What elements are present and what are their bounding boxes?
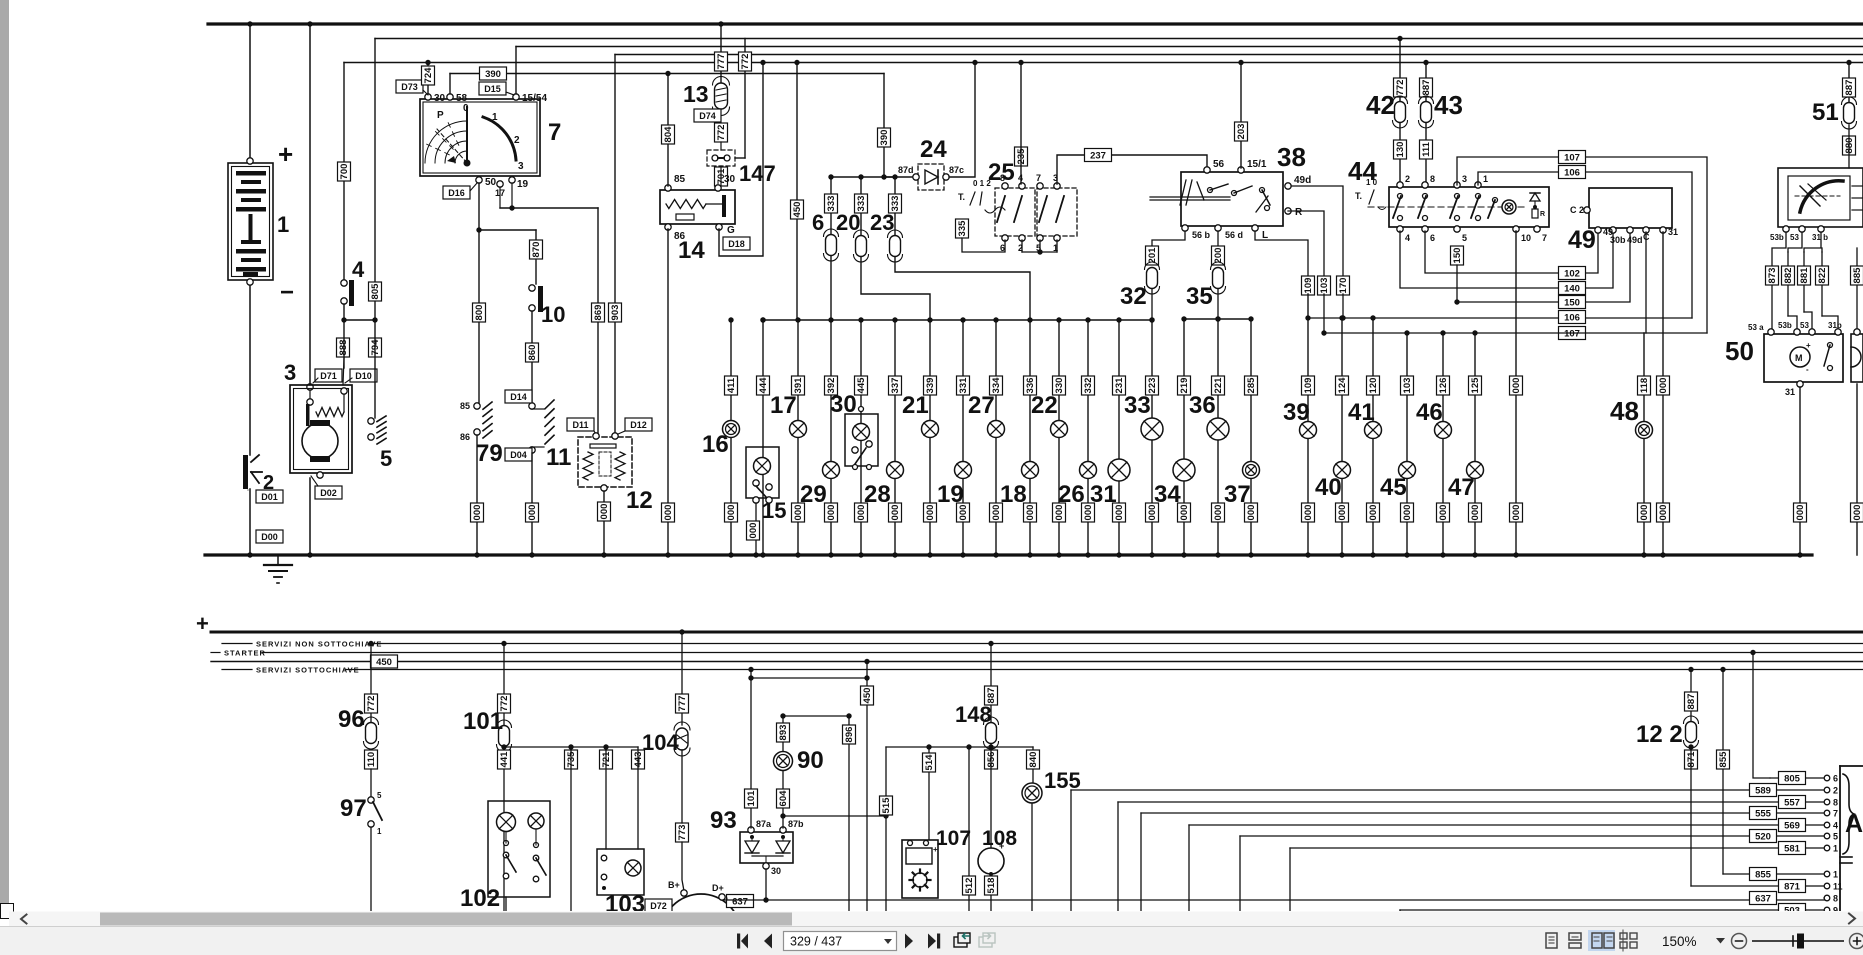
label 860	[526, 343, 539, 362]
wire 237 line	[1057, 155, 1207, 184]
svg-text:860: 860	[527, 345, 538, 361]
label D74	[694, 109, 721, 122]
svg-text:+: +	[196, 611, 209, 636]
label 79	[476, 440, 503, 467]
lamp 155	[1022, 783, 1042, 803]
wire 104 column	[679, 629, 684, 725]
lamp 29	[823, 462, 840, 479]
label 800	[473, 303, 486, 322]
svg-text:18: 18	[1000, 481, 1027, 508]
starter motor 3	[290, 385, 352, 473]
wire 870 branch	[476, 227, 536, 284]
svg-text:G: G	[727, 225, 735, 236]
toolbar zoom-in button	[1850, 934, 1863, 949]
svg-text:50: 50	[1725, 336, 1754, 366]
key switch 2	[243, 455, 262, 490]
lamp 40	[1334, 462, 1351, 479]
label D00	[256, 530, 283, 543]
label 777 col104	[676, 694, 689, 713]
svg-text:450: 450	[862, 688, 873, 704]
svg-text:101: 101	[463, 708, 503, 735]
label 106 bottom box	[1559, 311, 1586, 324]
switch 38 terminal 15/1	[1238, 159, 1267, 173]
relay 14	[660, 190, 735, 224]
regulator 93 terminals	[748, 819, 804, 876]
svg-text:58: 58	[456, 93, 468, 104]
svg-text:31: 31	[1668, 227, 1678, 237]
svg-text:39: 39	[1283, 399, 1310, 426]
motor 50b right	[1851, 329, 1863, 382]
label 000 col 36	[1212, 503, 1225, 522]
svg-text:29: 29	[800, 481, 827, 508]
svg-text:7: 7	[548, 119, 561, 146]
switch 25 lever marks	[958, 179, 991, 205]
label 000 pin10	[1510, 376, 1523, 395]
label 870	[530, 240, 543, 259]
label 285	[1245, 376, 1258, 395]
lamp-switch unit 15	[746, 447, 779, 503]
label 122	[1636, 721, 1683, 748]
svg-text:15: 15	[762, 498, 786, 523]
label 26	[1058, 481, 1085, 508]
switch 25 top terminals	[1000, 173, 1060, 189]
motor 50 pin 31	[1785, 381, 1803, 397]
label 441	[498, 750, 511, 769]
wire 203	[1238, 60, 1243, 168]
label 581 row box	[1779, 842, 1806, 855]
svg-text:000: 000	[1852, 505, 1863, 521]
label 30	[830, 391, 857, 418]
wire 869	[597, 208, 599, 434]
svg-text:87c: 87c	[949, 165, 964, 175]
label 124	[1336, 376, 1349, 395]
svg-text:000: 000	[1213, 505, 1224, 521]
svg-text:7: 7	[1542, 233, 1547, 243]
label 000 col50	[1794, 503, 1807, 522]
label 721	[600, 750, 613, 769]
label 000 pin31b	[1657, 503, 1670, 522]
svg-text:D+: D+	[712, 883, 724, 893]
wire 871 down	[1690, 747, 1692, 886]
wire 2 to ground bus	[247, 489, 252, 558]
label 869	[592, 303, 605, 322]
wire motor 50 to ground	[1797, 387, 1802, 558]
svg-text:148: 148	[955, 702, 992, 727]
switch 38	[1150, 172, 1283, 226]
svg-text:881: 881	[1799, 267, 1810, 284]
connector A body	[1840, 766, 1863, 916]
node 122 bottom	[1688, 744, 1693, 749]
label 887 col148	[985, 686, 998, 705]
wire 840 column	[1032, 747, 1034, 783]
svg-text:887: 887	[1686, 694, 1697, 710]
svg-text:23: 23	[870, 210, 894, 235]
label 155	[1044, 768, 1081, 793]
svg-text:000: 000	[1402, 505, 1413, 521]
svg-text:56: 56	[1213, 159, 1225, 170]
svg-text:26: 26	[1058, 481, 1085, 508]
label 5	[380, 446, 392, 471]
svg-text:893: 893	[778, 725, 789, 741]
label 520 row box	[1750, 830, 1777, 843]
svg-text:000: 000	[1438, 505, 1449, 521]
label 97	[340, 795, 367, 822]
motor 50 top terminals	[1748, 321, 1842, 335]
label 514	[923, 753, 936, 772]
svg-text:871: 871	[1784, 882, 1801, 893]
svg-text:109: 109	[1303, 378, 1314, 394]
svg-text:805: 805	[370, 283, 381, 300]
alternator G	[661, 880, 741, 955]
svg-text:107: 107	[1564, 329, 1580, 340]
label 855 col	[1717, 750, 1730, 769]
fuse 13	[713, 77, 730, 116]
connector A pin 7 row 555	[1824, 809, 1838, 819]
fuse 32	[1145, 262, 1160, 294]
label 15	[762, 498, 786, 523]
label 871 col122	[1685, 750, 1698, 769]
svg-text:35: 35	[1186, 283, 1213, 310]
svg-text:1: 1	[1483, 174, 1488, 184]
svg-text:53: 53	[1800, 321, 1809, 330]
wire 390 line	[450, 74, 884, 178]
svg-text:6: 6	[812, 210, 824, 235]
label D10	[345, 369, 377, 383]
gauge terminal 50	[476, 177, 497, 188]
svg-text:000: 000	[1639, 505, 1650, 521]
label D18	[723, 237, 750, 250]
wire 49 pinC down	[1645, 232, 1647, 333]
label 107 bottom box	[1559, 327, 1586, 340]
svg-text:390: 390	[485, 69, 501, 80]
toolbar zoom dropdown caret	[1716, 938, 1725, 944]
toolbar two-page-continuous icon	[1620, 930, 1637, 951]
label 46	[1416, 399, 1443, 426]
relay 14 terminal 85	[665, 174, 686, 191]
label 48	[1610, 396, 1639, 426]
label 772 f42	[1394, 78, 1407, 97]
wire 15 to ground	[753, 503, 758, 558]
label 14	[678, 237, 705, 264]
wire lamp 41 column	[1370, 318, 1375, 558]
wire 450b column	[864, 659, 869, 911]
label 637 row box	[1750, 892, 1777, 905]
svg-text:103: 103	[1402, 378, 1413, 394]
wire 148 column	[988, 641, 993, 722]
label 10	[541, 302, 565, 327]
label 000 col 19	[957, 503, 970, 522]
label 90	[797, 747, 824, 774]
toolbar prev-page button	[764, 934, 772, 949]
svg-text:150: 150	[1564, 298, 1580, 309]
label 701	[715, 167, 728, 186]
svg-text:87d: 87d	[898, 165, 914, 175]
battery plus sign	[278, 139, 293, 169]
svg-text:107: 107	[1564, 153, 1580, 164]
label 38	[1277, 142, 1306, 172]
label 555 row box	[1750, 807, 1777, 820]
svg-text:520: 520	[1755, 832, 1771, 843]
svg-text:28: 28	[864, 481, 891, 508]
svg-text:126: 126	[1438, 378, 1449, 394]
label 203	[1235, 122, 1248, 141]
svg-text:777: 777	[677, 696, 688, 712]
svg-text:13: 13	[683, 81, 709, 107]
wire 335	[962, 238, 1005, 252]
label 512	[963, 876, 976, 895]
wire 102 down	[505, 897, 507, 911]
fuse 122	[1684, 716, 1699, 748]
bus line 3	[516, 46, 1863, 48]
label 333 fuse6	[825, 194, 838, 213]
label 334	[990, 376, 1003, 395]
switch coil 79	[460, 401, 492, 442]
svg-text:25: 25	[988, 159, 1015, 186]
svg-text:200: 200	[1213, 248, 1224, 264]
label 23	[870, 210, 894, 235]
wire lamp column 31	[1116, 317, 1121, 557]
label 569 row box	[1779, 819, 1806, 832]
label 126	[1437, 376, 1450, 395]
svg-text:2: 2	[1405, 174, 1410, 184]
wire 12 to ground	[601, 491, 606, 558]
svg-text:D72: D72	[650, 901, 667, 911]
svg-text:40: 40	[1315, 474, 1342, 501]
label D15	[479, 82, 514, 95]
label 000 col 16	[725, 503, 738, 522]
wire gauge 50 down	[478, 183, 480, 404]
svg-text:SERVIZI SOTTOCHIAVE: SERVIZI SOTTOCHIAVE	[256, 666, 360, 675]
svg-text:101: 101	[746, 790, 757, 807]
label 25	[988, 159, 1015, 186]
label 130	[1394, 140, 1407, 159]
label 391	[792, 376, 805, 395]
label 000 col 28	[889, 503, 902, 522]
wire row 581 to connector A	[1290, 848, 1824, 911]
wire 51 to wiper switch	[1848, 125, 1850, 168]
label 888	[337, 338, 350, 357]
label 101 col93	[745, 789, 758, 808]
switch 44 T marks	[1355, 178, 1386, 210]
svg-text:90: 90	[797, 747, 824, 774]
wire 855 column	[1720, 667, 1725, 874]
fuse 148	[984, 717, 999, 749]
label D72	[645, 899, 672, 912]
label 24	[920, 136, 947, 163]
svg-text:450: 450	[792, 202, 803, 218]
wire 122 column	[1688, 667, 1693, 722]
label 773	[676, 823, 689, 842]
label 000 col 33	[1146, 503, 1159, 522]
svg-text:0: 0	[463, 103, 469, 114]
svg-text:109: 109	[1303, 278, 1314, 294]
svg-text:822: 822	[1817, 268, 1828, 284]
label 22	[1031, 392, 1058, 419]
svg-text:38: 38	[1277, 142, 1306, 172]
svg-text:337: 337	[890, 378, 901, 394]
label 000 col 18	[1024, 503, 1037, 522]
wire fuse32 to lineA	[1149, 289, 1154, 323]
voltage regulator 93	[740, 832, 793, 864]
svg-text:12 2: 12 2	[1636, 721, 1683, 748]
svg-text:11: 11	[546, 444, 571, 471]
svg-text:140: 140	[1564, 284, 1580, 295]
gauge terminal 58	[447, 93, 468, 104]
svg-text:C 2: C 2	[1570, 205, 1584, 215]
switch 38 terminal 49d	[1285, 175, 1311, 189]
svg-text:855: 855	[1755, 870, 1772, 881]
label 000 wire12	[598, 502, 611, 521]
label 887 f43	[1420, 78, 1433, 97]
wire 102 line	[1425, 228, 1598, 273]
bus line bottom positive	[211, 631, 1863, 634]
switch 44 diode	[1530, 193, 1545, 218]
label 339	[924, 376, 937, 395]
svg-text:49: 49	[1568, 226, 1596, 254]
wire lamp column 27	[993, 317, 998, 557]
label D11	[567, 418, 596, 434]
lamp 47	[1467, 462, 1484, 479]
svg-text:M: M	[1795, 353, 1803, 363]
svg-text:D01: D01	[261, 492, 278, 502]
label 231	[1113, 376, 1126, 395]
label 873	[1766, 266, 1779, 285]
wire 147 to relay 30	[720, 142, 722, 185]
gauge terminal 17	[495, 181, 505, 198]
label 445	[855, 376, 868, 395]
svg-text:441: 441	[499, 751, 510, 768]
svg-text:53 a: 53 a	[1748, 323, 1764, 332]
label 118	[1638, 376, 1651, 395]
gauge terminal 15/54	[513, 93, 548, 104]
resistor block 12	[578, 433, 632, 491]
svg-text:19: 19	[937, 481, 964, 508]
wire 170 to line	[1340, 294, 1345, 321]
svg-text:000: 000	[1368, 505, 1379, 521]
svg-text:221: 221	[1213, 377, 1224, 394]
label 772 col96	[365, 694, 378, 713]
svg-text:334: 334	[991, 377, 1002, 394]
svg-text:48: 48	[1610, 396, 1639, 426]
wire switch 4 to junction	[341, 304, 377, 323]
svg-text:5: 5	[1833, 832, 1838, 842]
label 7	[548, 119, 561, 146]
label 856	[985, 750, 998, 769]
label 103	[1318, 276, 1331, 295]
device 107	[902, 840, 938, 898]
label 887 f51	[1843, 78, 1856, 97]
label 804	[662, 125, 675, 144]
connector A pin 6 row 805	[1824, 774, 1838, 784]
svg-text:870: 870	[531, 242, 542, 258]
switch 38 terminal 56	[1204, 159, 1225, 173]
svg-text:41: 41	[1348, 399, 1375, 426]
label D16	[443, 183, 477, 199]
svg-text:27: 27	[968, 392, 995, 419]
wire 106 loop	[1478, 172, 1692, 318]
wire battery positive to bus	[247, 21, 253, 164]
svg-text:36: 36	[1189, 392, 1216, 419]
svg-text:155: 155	[1044, 768, 1081, 793]
svg-text:46: 46	[1416, 399, 1443, 426]
svg-text:000: 000	[826, 505, 837, 521]
label 50	[1725, 336, 1754, 366]
ground symbol	[264, 555, 292, 583]
label D12	[618, 418, 652, 434]
label 109	[1302, 276, 1315, 295]
toolbar next-view icon (disabled)	[979, 933, 995, 947]
svg-text:86: 86	[460, 432, 470, 442]
svg-text:22: 22	[1031, 392, 1058, 419]
wire 49 pin31 down	[1660, 232, 1665, 558]
svg-text:589: 589	[1755, 786, 1771, 797]
lamp 28	[887, 462, 904, 479]
fuse 43	[1419, 96, 1434, 128]
svg-text:724: 724	[423, 67, 434, 84]
label 2	[263, 472, 274, 494]
label 29	[800, 481, 827, 508]
svg-text:31b: 31b	[1828, 321, 1842, 330]
svg-text:804: 804	[663, 126, 674, 143]
lamp 41	[1365, 422, 1382, 439]
label 000 col 15b	[747, 521, 760, 540]
svg-text:4: 4	[1833, 821, 1838, 831]
svg-text:773: 773	[677, 825, 688, 841]
svg-text:D18: D18	[728, 239, 745, 249]
svg-text:6: 6	[1430, 233, 1435, 243]
wire 896 column	[848, 716, 850, 911]
wire 881 column	[1804, 232, 1821, 330]
fuse 23	[888, 230, 903, 262]
wire starter feed from bus	[307, 21, 313, 390]
fuse 35	[1211, 262, 1226, 294]
bus line 5	[344, 62, 1863, 64]
wire 101 column	[501, 641, 506, 726]
switch 44 bottom terminals	[1397, 226, 1547, 243]
battery 1	[228, 163, 273, 280]
svg-text:42: 42	[1366, 90, 1395, 120]
label 000 col50b	[1851, 503, 1863, 522]
svg-text:000: 000	[1658, 505, 1669, 521]
svg-text:604: 604	[778, 790, 789, 807]
line starter	[211, 649, 1863, 658]
distribution line A	[763, 319, 1152, 321]
label 21	[902, 392, 929, 419]
svg-text:107: 107	[936, 827, 971, 850]
label 103	[605, 891, 645, 918]
wire 140 line	[1400, 228, 1613, 288]
label 444	[757, 376, 770, 395]
wire 87d	[831, 174, 918, 179]
svg-text:000: 000	[599, 504, 610, 520]
svg-text:B+: B+	[668, 880, 680, 890]
svg-text:85: 85	[674, 174, 686, 185]
horizontal scrollbar thumb	[100, 913, 792, 926]
wire 150 line	[1454, 228, 1630, 305]
scrollbar corner box	[1, 904, 14, 919]
svg-text:120: 120	[1368, 378, 1379, 394]
wire lamp 48 column	[1641, 333, 1646, 558]
svg-text:118: 118	[1639, 378, 1650, 393]
lamp 16	[723, 421, 740, 438]
motor 108	[978, 841, 1004, 876]
lamp 90	[774, 752, 793, 771]
svg-text:332: 332	[1083, 378, 1094, 394]
svg-text:3: 3	[1462, 174, 1467, 184]
svg-text:+: +	[278, 139, 293, 169]
wire starter to ground bus	[307, 472, 323, 558]
motor 50	[1764, 334, 1843, 382]
